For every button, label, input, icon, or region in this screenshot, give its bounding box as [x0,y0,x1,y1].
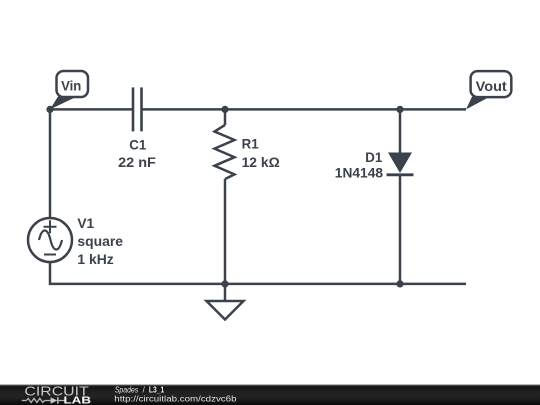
net label Vout [466,71,511,109]
wire V1 top lead [49,109,52,218]
node ground junction [221,280,228,287]
wire D1 top lead [399,109,402,154]
node D1 top junction [396,106,403,113]
net label Vin [50,71,88,109]
svg-text:1 kHz: 1 kHz [77,251,113,267]
svg-text:Spades: Spades [115,385,139,394]
capacitor C1 [133,87,142,131]
footer bar [0,385,540,405]
svg-text:D1: D1 [365,149,382,165]
wire top rail right of C1 [142,108,467,111]
svg-text:1N4148: 1N4148 [335,164,383,180]
svg-text:square: square [77,233,123,249]
node R1 top junction [221,106,228,113]
svg-text:12 kΩ: 12 kΩ [242,154,280,170]
wire R1 top lead [224,109,227,125]
node Vin junction [46,106,53,113]
voltage source V1 [28,218,72,262]
wire R1 bottom lead [224,179,227,284]
svg-text:22 nF: 22 nF [118,154,156,170]
svg-text:Vout: Vout [476,79,508,94]
node D1 bottom junction [396,280,403,287]
svg-text:LAB: LAB [64,395,92,405]
svg-text:http://circuitlab.com/cdzvc6b: http://circuitlab.com/cdzvc6b [114,394,237,403]
diode D1 [387,153,414,175]
CircuitLab logo schematic line with resistor and diode [22,397,66,403]
svg-text:V1: V1 [77,215,94,231]
svg-text:L3_1: L3_1 [149,385,165,394]
ground [207,284,244,320]
wire top rail left of C1 [50,108,133,111]
svg-text:C1: C1 [129,136,146,152]
svg-text:Vin: Vin [61,78,81,93]
resistor R1 [215,125,235,179]
svg-text:R1: R1 [242,135,259,151]
wire D1 bottom lead [399,175,402,284]
wire V1 bottom lead and bottom rail [50,262,466,284]
